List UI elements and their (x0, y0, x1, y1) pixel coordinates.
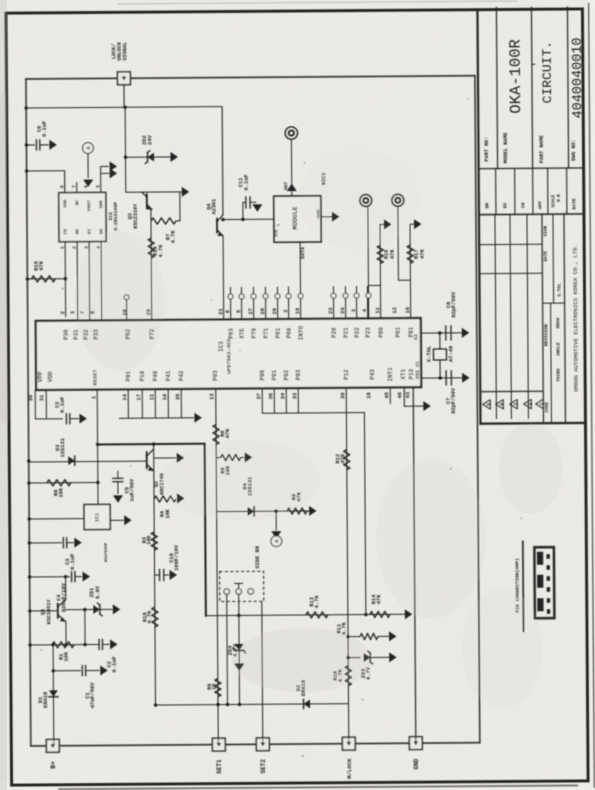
terminal circle T2 (392, 194, 404, 206)
resistor R17 47K (410, 224, 414, 280)
antenna terminal (285, 127, 297, 139)
wire rail2 (26, 107, 223, 216)
junction ZD3 (346, 656, 349, 659)
junction R1 rail (28, 643, 31, 646)
resistor R4 10K branch (154, 496, 176, 502)
resistor R6b 1K (215, 679, 221, 697)
wire module to Q4 (223, 218, 274, 220)
net arrow R11 (389, 631, 396, 641)
terminal GND (409, 737, 422, 750)
wire P9x bus (261, 388, 263, 413)
junction R15 left (26, 277, 29, 280)
capacitor C1 47uF/50V (53, 670, 80, 672)
resistor R16 47K (380, 224, 384, 285)
ground arrow C7 (462, 373, 469, 383)
ground arrow C1 (100, 665, 107, 675)
resistor R8 10K (47, 480, 71, 486)
wire rail3 to IC2 VDD (27, 171, 65, 193)
junction C11 (241, 218, 244, 221)
wire D4 branch (217, 510, 310, 513)
wire X1 to crystal (421, 377, 462, 379)
IC U1 regulator (84, 504, 110, 529)
ground arrow C2 (79, 414, 86, 424)
junction Q4 base (221, 218, 224, 221)
resistor R10b 4.7K (345, 666, 351, 686)
capacitor C11 0.1uF (242, 202, 244, 219)
switch contacts (224, 589, 230, 595)
wire IC2 pins to IC3 (64, 242, 67, 317)
wire X2 to crystal (421, 332, 462, 334)
wire ZD2 branch (126, 156, 171, 158)
resistor R3 10K (151, 532, 157, 550)
junction rail2 lock net (123, 106, 126, 109)
wire R14 net down (364, 413, 365, 615)
ground arrow C9 (110, 639, 117, 649)
switch box SIDE BN (220, 571, 264, 601)
diode D2 ERA18 (303, 700, 310, 709)
resistor R14 47K (370, 611, 390, 617)
capacitor C7 82pF/50V (445, 371, 447, 385)
ground arrow C10 (170, 570, 177, 580)
wire antenna (290, 139, 292, 196)
ground arrow C11 (252, 204, 262, 211)
wire T1 down (367, 206, 370, 293)
junction R11 (346, 635, 349, 638)
wire INT1 stub (389, 387, 391, 403)
wire P03 net down (216, 389, 219, 745)
wire RESET down to IC1 (96, 389, 99, 504)
wire R5 branch (216, 457, 220, 459)
wire switch to bus (226, 594, 229, 704)
wire thick bus (98, 443, 205, 446)
transistor Q4 A2301 (216, 219, 218, 233)
wire node A down (87, 154, 89, 178)
wire Q3 emitter down (150, 209, 153, 320)
junction R8 rail (27, 481, 30, 484)
junction R15 right (64, 277, 67, 280)
wire R8 branch (29, 481, 98, 484)
wire D2 bus (156, 704, 349, 705)
junction C3 rail (28, 541, 31, 544)
junction rail3 (25, 169, 28, 172)
resistor R6 47K (213, 425, 219, 445)
net arrow Q3 row (182, 187, 189, 197)
wire ZD1 row to R1 row (84, 610, 86, 645)
wire C3 branch (29, 542, 61, 544)
diode D3 1SS131 (68, 456, 75, 465)
IC U3 uPD7503 microcontroller (36, 318, 421, 390)
junction R14 bus (364, 613, 367, 616)
capacitor C3 0.1uF (62, 538, 64, 548)
wire Q1 emitter to R1 line (65, 622, 67, 645)
wire DATA to IC3 (299, 242, 301, 294)
wire Q1 collector to C4 line (65, 577, 67, 600)
node A circle bottom (271, 536, 282, 547)
resistor R12 47K (344, 450, 350, 470)
wire SET2 net up (262, 601, 263, 744)
net arrow ZD3 (389, 652, 396, 662)
wire IC2 pin7 stub (76, 183, 78, 193)
capacitor C8 82pF/50V (445, 326, 447, 340)
zener diode ZD1 5.8V (66, 609, 94, 611)
wire right rail (475, 76, 480, 743)
junction C4 rail (28, 575, 31, 578)
net arrow SHO a (110, 161, 117, 171)
title revision triangles (483, 400, 491, 410)
wire Q4 emitter to IC3 pin 21 (222, 236, 225, 319)
ground arrow ZD1 (113, 604, 120, 614)
wire to node A bottom (275, 511, 277, 530)
junction Q1 base rail (28, 609, 31, 612)
scan specks (61, 288, 63, 290)
wire Q3 collector row (126, 191, 182, 193)
pin connector circles above IC3 (124, 295, 129, 300)
title block (477, 10, 480, 424)
junction IC1 rail (27, 517, 30, 520)
junction D4 R9 (274, 509, 277, 512)
zener diode ZD2 24V (147, 153, 154, 162)
wire VSS to ground (404, 387, 423, 406)
resistor R5 10K (221, 454, 241, 460)
wire R13 bus (206, 614, 405, 615)
capacitor C5 1uF/50V (117, 471, 119, 478)
resistor R13 4.7K (306, 612, 328, 618)
junction C6 rail (25, 143, 28, 146)
capacitor C6 0.1uF (35, 140, 37, 150)
junction rail2 left (24, 106, 27, 109)
net arrow R9 (309, 506, 316, 516)
wire B+ net down (52, 645, 55, 746)
net arrow ZD2 (170, 152, 177, 162)
junction crystal top (438, 331, 441, 334)
net arrow SHO b (110, 168, 117, 178)
wire T2 elbow (398, 206, 411, 281)
connector J1 pin diagram (534, 547, 554, 618)
ground arrow R5 (245, 452, 252, 462)
ground arrow C6 (49, 140, 56, 150)
net arrow comb bus (194, 413, 201, 423)
wire IC1 out arrow (110, 519, 123, 521)
wire emitter arrow branch (154, 457, 176, 459)
wire VPP VDD to C2 bus (34, 390, 36, 419)
title approval strip (495, 169, 497, 215)
diode D4 1SS131 (248, 507, 255, 516)
terminal SET1 (212, 738, 225, 751)
antenna wire arrow (287, 184, 297, 191)
module HIC1 (274, 196, 321, 242)
resistor R1 10K (52, 642, 74, 648)
resistor R11 4.7K branch (348, 636, 360, 638)
crystal X-TAL AT-49 (439, 333, 441, 349)
wire C4 branch (30, 576, 70, 578)
wire lock terminal drop (123, 84, 125, 107)
terminal LOCK/UNLOCK SIGNAL (117, 72, 130, 85)
net arrow R13 bus (405, 609, 412, 619)
zener diode ZD4 4.7V (238, 615, 240, 640)
wire R15 branch (27, 278, 65, 280)
resistor R15 47K (31, 276, 55, 282)
terminal B+ (46, 739, 59, 752)
capacitor C9 0.1uF (98, 639, 100, 649)
wire lock net down (124, 107, 127, 192)
resistor R18 4.7K (152, 607, 158, 627)
ground arrow C8 (462, 328, 469, 338)
wire bottom rail (31, 743, 480, 746)
zener diode ZD3 4.7V branch (348, 657, 360, 659)
junction crystal bottom (438, 376, 441, 379)
wire R1 branch (30, 643, 98, 645)
ground arrow C4 (83, 572, 90, 582)
terminal M/LOCK (342, 737, 355, 750)
wire thick bus down (205, 444, 206, 616)
diode D1 ERA18 (49, 690, 58, 697)
capacitor C2 0.1uF (65, 414, 67, 424)
wire IC2 SHO arrows (101, 166, 109, 192)
capacitor C4 820uF/10V (71, 572, 73, 582)
ground arrow C3 (74, 538, 81, 548)
IC U2 S-2B151AOP (59, 192, 106, 241)
wire left rail (26, 79, 31, 746)
wire Q2 net vertical (154, 444, 156, 705)
transistor Q1 KSC3451Y (57, 604, 59, 618)
wire rail to IC1 (29, 518, 84, 520)
wire top rail B+ (26, 76, 475, 79)
transistor Q3 KSC2310Y (146, 194, 148, 208)
wire M/LOCK net (346, 388, 349, 744)
terminal circle T1 (360, 194, 372, 206)
wire GND net (413, 387, 416, 743)
resistor R10 4.7K (148, 238, 154, 258)
wire D3 branch (29, 460, 147, 463)
resistor R7 4.7K feedback (151, 218, 176, 224)
resistor R9 47K (287, 508, 307, 514)
node A circle top (83, 143, 94, 154)
wire P0x comb bus (127, 389, 129, 418)
transistor Q2 KRC1740 (146, 452, 148, 468)
capacitor C10 100uF/10V (155, 574, 160, 576)
ground arrow VSS (423, 401, 430, 411)
title revision table (495, 215, 496, 419)
junction D3 rail (27, 459, 30, 462)
wire C6 branch (26, 144, 34, 146)
terminal SET2 (256, 738, 269, 751)
